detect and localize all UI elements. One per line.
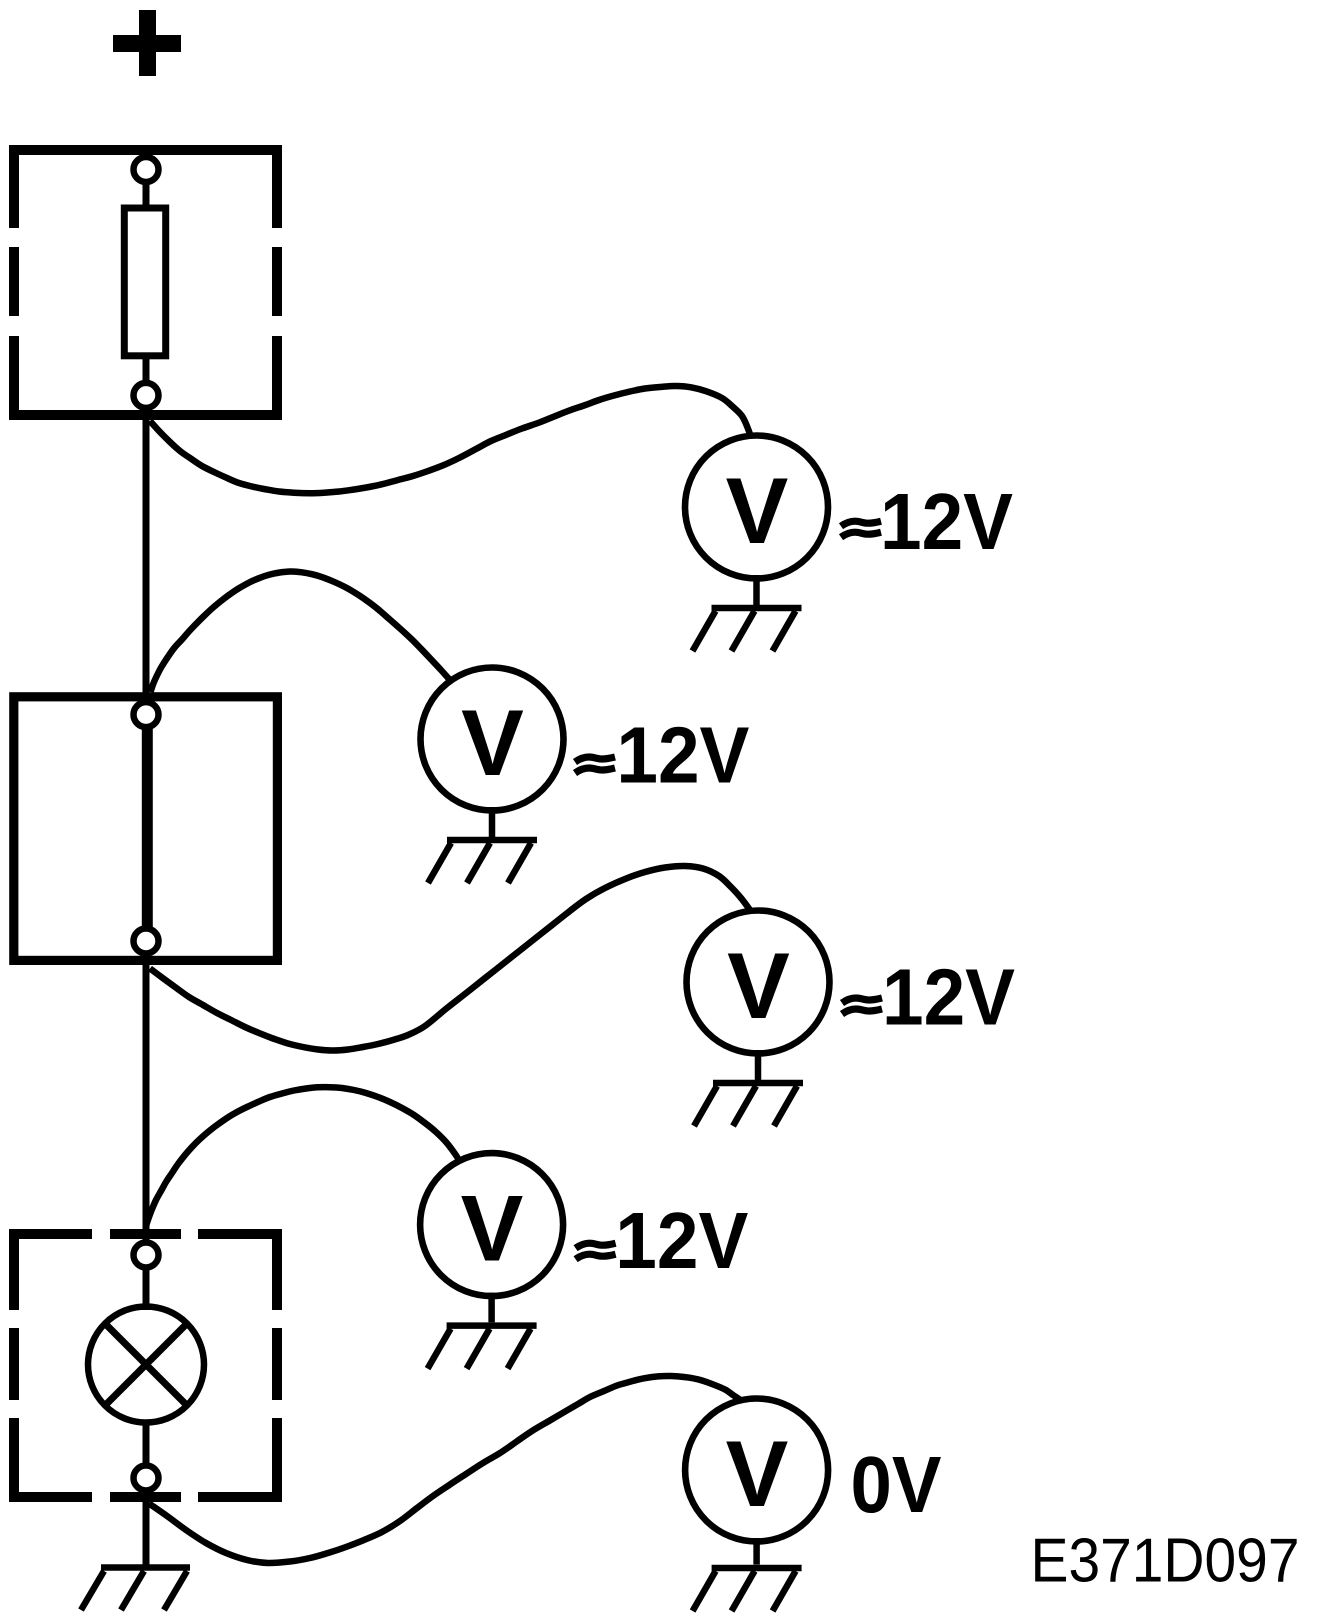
svg-text:12V: 12V [615, 1196, 748, 1285]
svg-text:V: V [727, 933, 790, 1038]
svg-text:12V: 12V [880, 477, 1013, 566]
svg-text:V: V [461, 690, 524, 795]
svg-text:E371D097: E371D097 [1031, 1527, 1300, 1596]
svg-text:0V: 0V [851, 1440, 942, 1529]
svg-text:V: V [726, 458, 789, 563]
svg-text:V: V [726, 1421, 789, 1526]
svg-text:V: V [461, 1176, 524, 1281]
svg-text:12V: 12V [882, 953, 1015, 1042]
svg-text:12V: 12V [616, 711, 749, 800]
